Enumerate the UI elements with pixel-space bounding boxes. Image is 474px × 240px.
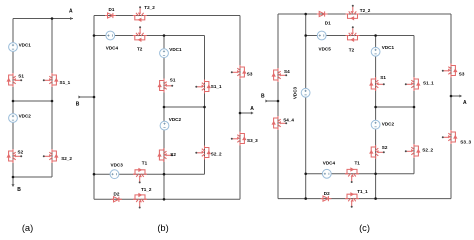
wire circuit (c) inner right rail [413,36,415,174]
node B terminal (c) [265,100,268,103]
transistor T2_2 (c) [346,5,360,20]
voltage source VDC3 (b) [110,170,119,179]
svg-text:D2: D2 [324,191,330,196]
svg-text:S1: S1 [170,78,176,83]
svg-text:VDC4: VDC4 [106,45,119,50]
transistor T2 (b) [133,26,147,41]
svg-text:S1_1: S1_1 [211,84,222,89]
junction (c) middle right [413,106,416,109]
diode D2 (b) [111,197,122,202]
svg-text:A: A [69,9,73,15]
junction (a) bottom left [12,176,15,179]
svg-text:VDC1: VDC1 [169,47,182,52]
transistor S2 (c) [370,145,385,159]
junction (c) inner left third bus [374,173,377,176]
svg-text:T2_2: T2_2 [360,8,371,13]
transistor T1_1 (c) [345,193,359,208]
junction (a) mid right [51,100,54,103]
junction (c) VDC3 rail third bus [304,173,307,176]
svg-text:T1: T1 [142,161,148,166]
voltage source VDC1 (a) [9,43,18,52]
svg-text:D1: D1 [109,7,115,12]
svg-text:A: A [250,106,254,112]
junction (b) inner left bottom [163,198,166,201]
transistor S3_3 (c) [442,130,457,144]
wire circuit (c) far left rail [277,14,279,199]
wire circuit (a) B stub [12,177,14,186]
svg-text:S3_3: S3_3 [247,138,258,143]
wire circuit (b) inner right rail [204,36,206,175]
svg-text:S3_3: S3_3 [460,139,471,144]
junction (c) middle left [374,106,377,109]
svg-text:VDC2: VDC2 [19,114,32,119]
svg-text:S2_2: S2_2 [61,156,72,161]
svg-text:D2: D2 [114,191,120,196]
wire circuit (b) top bus [94,15,240,17]
svg-text:B: B [76,102,80,108]
junction (b) right rail A [239,112,242,115]
svg-text:T2_2: T2_2 [144,5,155,10]
junction (c) far left B node [277,100,280,103]
svg-text:T1: T1 [355,160,361,165]
transistor S1_1 (b) [195,80,210,94]
svg-text:S4_4: S4_4 [283,118,294,123]
transistor S1 (b) [158,79,173,93]
svg-text:S2_2: S2_2 [422,148,433,153]
node A terminal (b) [251,112,254,115]
transistor S3 (b) [231,65,246,79]
wire circuit (b) right rail [239,16,241,200]
junction (b) inner left third bus [163,173,166,176]
transistor S4_4 (c) [272,116,287,130]
wire circuit (c) middle link [376,106,414,108]
transistor S1_1 (c) [405,77,420,91]
wire circuit (b) B stub [79,96,95,98]
junction (b) inner left top [163,34,166,37]
wire circuit (a) middle link [13,100,52,102]
transistor S2_2 (c) [405,144,420,158]
wire circuit (c) B stub [266,100,279,102]
svg-text:S3: S3 [459,71,465,76]
svg-text:VDC1: VDC1 [19,43,32,48]
transistor T1_2 (b) [133,194,147,209]
wire circuit (c) third bus [306,173,414,175]
transistor S2 (b) [158,148,173,162]
wire circuit (c) right rail [450,14,452,199]
junction (c) inner left top [374,34,377,37]
svg-text:VDC3: VDC3 [293,86,298,99]
wire circuit (b) second bus [94,35,205,37]
junction (b) left rail B [93,96,96,99]
junction (b) left rail third bus [93,173,96,176]
svg-text:S2: S2 [170,152,176,157]
svg-text:S2: S2 [382,145,388,150]
svg-text:S4: S4 [284,69,290,74]
diode D1 (b) [105,13,116,18]
wire circuit (c) second bus [306,35,414,37]
svg-text:VDC4: VDC4 [323,160,336,165]
svg-text:T2: T2 [137,47,143,52]
svg-text:B: B [17,187,21,193]
transistor T1 (b) [133,169,147,184]
voltage source VDC2 (c) [371,120,380,129]
svg-text:S1: S1 [18,73,24,78]
junction (b) middle left [163,106,166,109]
transistor S3_3 (b) [231,132,246,146]
svg-text:VDC3: VDC3 [111,162,124,167]
wire circuit (c) top bus [278,13,451,15]
junction (c) right rail A [450,95,453,98]
wire circuit (c) A stub [451,95,461,97]
wire circuit (a) top A bus [13,18,73,20]
wire circuit (c) VDC3 rail [305,14,307,199]
wire circuit (b) inner left rail [163,36,165,200]
voltage source VDC5 (c) [317,31,326,40]
svg-text:S1_1: S1_1 [60,80,71,85]
transistor S2_2 (b) [195,146,210,160]
node A terminal (a) [70,17,73,20]
svg-text:T2: T2 [349,47,355,52]
transistor S1 (c) [370,77,385,91]
voltage source VDC4 (c) [322,169,331,178]
voltage source VDC2 (a) [9,114,18,123]
wire circuit (a) bottom bus [13,176,52,178]
wire circuit (a) left rail [12,19,14,178]
transistor S1_1 (a) [43,73,58,87]
svg-text:T1_1: T1_1 [357,189,368,194]
wire circuit (b) middle link [164,106,205,108]
svg-text:VDC5: VDC5 [319,46,332,51]
svg-text:(b): (b) [157,223,168,233]
voltage source VDC3 (c) [301,88,310,97]
voltage source VDC2 (b) [160,121,169,130]
wire circuit (c) bottom bus [278,198,451,200]
junction (a) top right rail [51,17,54,20]
diode D1 (c) [317,11,328,16]
transistor S1 (a) [7,73,22,87]
wire circuit (a) right rail [51,19,53,178]
node B terminal (a) [12,184,15,187]
svg-text:A: A [463,100,467,106]
transistor S2_2 (a) [43,149,58,163]
svg-text:S2_2: S2_2 [211,151,222,156]
svg-text:D1: D1 [325,20,331,25]
svg-text:S1_1: S1_1 [423,80,434,85]
junction (b) left rail second bus [93,34,96,37]
transistor S3 (c) [442,64,457,78]
svg-text:T1_2: T1_2 [141,187,152,192]
voltage source VDC1 (c) [371,47,380,56]
svg-text:S3: S3 [247,72,253,77]
diode D2 (c) [321,196,332,201]
svg-text:(c): (c) [359,223,370,233]
junction (c) VDC3 rail top [304,13,307,16]
junction (b) middle right [203,106,206,109]
transistor S2 (a) [7,149,22,163]
svg-text:(a): (a) [22,223,33,233]
svg-text:VDC1: VDC1 [382,45,395,50]
transistor T2 (c) [346,26,360,41]
junction (a) mid left [12,100,15,103]
transistor T2_2 (b) [133,6,147,21]
transistor T1 (c) [345,168,359,183]
junction (c) VDC3 rail second bus [304,34,307,37]
wire circuit (b) left rail [93,16,95,200]
wire circuit (c) inner left rail [375,36,377,199]
transistor S4 (c) [272,68,287,82]
node B terminal (b) [78,96,81,99]
svg-text:VDC2: VDC2 [169,117,182,122]
junction (c) inner left bottom [374,197,377,200]
svg-text:S1: S1 [380,75,386,80]
voltage source VDC4 (b) [106,31,115,40]
wire circuit (b) A stub [240,112,252,114]
svg-text:VDC2: VDC2 [382,121,395,126]
voltage source VDC1 (b) [160,49,169,58]
node A terminal (c) [459,95,462,98]
wire circuit (b) bottom bus [94,198,240,200]
svg-text:S2: S2 [18,149,24,154]
wire circuit (b) third bus [94,173,205,175]
svg-text:B: B [261,94,265,100]
junction (c) VDC3 rail bottom [304,197,307,200]
